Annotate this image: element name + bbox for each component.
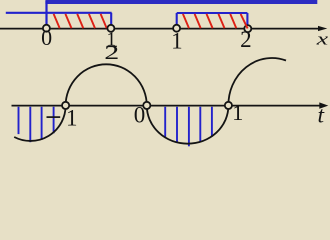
label 1/2 bar xyxy=(107,45,117,47)
blue riser at x=2 xyxy=(246,13,248,25)
sine-like curve xyxy=(14,58,286,144)
node circle at t=-1 xyxy=(62,102,69,109)
blue lower level line xyxy=(6,12,112,14)
blue riser at x=1/2 xyxy=(110,13,112,25)
bottom t-axis xyxy=(12,105,323,107)
svg-text:1: 1 xyxy=(66,106,78,131)
svg-text:0: 0 xyxy=(41,25,52,50)
node circle at 0 xyxy=(43,25,50,32)
blue vertical hatching trough 1 xyxy=(19,107,54,142)
node circle at 1 xyxy=(173,25,180,32)
red hatch stroke over circle at 2 xyxy=(241,14,248,29)
top x-axis xyxy=(0,28,320,30)
red hatching box 1 xyxy=(54,14,107,28)
node circle at t=0 xyxy=(143,102,150,109)
svg-text:1: 1 xyxy=(171,28,183,53)
svg-text:2: 2 xyxy=(240,27,252,52)
top axis arrowhead xyxy=(318,26,327,31)
label x xyxy=(316,30,329,49)
label 1/2 denominator xyxy=(104,41,119,64)
blue upper level line xyxy=(45,0,317,4)
bottom axis arrowhead xyxy=(319,102,328,108)
svg-text:2: 2 xyxy=(104,41,119,64)
svg-text:t: t xyxy=(318,103,325,129)
blue vertical hatching trough 2 xyxy=(165,107,212,147)
label -1 minus xyxy=(47,116,61,118)
blue riser at x=0 xyxy=(45,1,47,25)
svg-text:x: x xyxy=(316,30,329,49)
node circle at 2 xyxy=(244,25,251,32)
node circle at t=1 xyxy=(225,102,232,109)
node circle at 1/2 xyxy=(107,25,114,32)
svg-text:0: 0 xyxy=(134,103,146,128)
red hatching box 2 xyxy=(183,14,236,28)
blue top of box 2 xyxy=(177,12,248,14)
svg-text:1: 1 xyxy=(232,100,243,125)
blue riser at x=1 xyxy=(176,13,178,24)
